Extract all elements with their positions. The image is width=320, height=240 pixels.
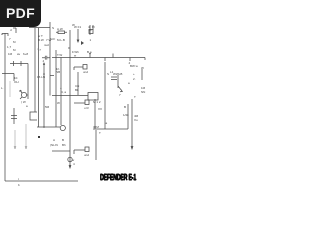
svg-text:4: 4 xyxy=(73,162,75,166)
svg-text:⌜.7: ⌜.7 xyxy=(37,48,41,52)
svg-text:w T: w T xyxy=(38,34,43,38)
tap x113 up xyxy=(112,54,114,58)
svg-text:B.a: B.a xyxy=(87,50,92,54)
node dot x44 xyxy=(43,73,45,75)
wire stub top-left xyxy=(13,28,16,33)
node square xyxy=(38,136,40,138)
wire vertical x142 xyxy=(141,69,143,80)
rail end tick xyxy=(144,58,146,61)
wire left border bus xyxy=(4,33,6,181)
wire y151 xyxy=(52,150,70,152)
svg-text:2·: 2· xyxy=(133,77,136,81)
capacitor C5 xyxy=(111,77,117,80)
wire vertical x28 xyxy=(27,64,29,100)
fuse F2 circle xyxy=(68,157,72,161)
svg-text:1,7: 1,7 xyxy=(7,45,12,49)
svg-text:S: S xyxy=(52,26,54,30)
capacitor C2 xyxy=(42,56,50,60)
svg-text:A.W: A.W xyxy=(57,27,63,31)
svg-text:nuŏ: nuŏ xyxy=(44,43,49,47)
wire vertical x61 xyxy=(60,58,62,126)
wire drop arrow 2 xyxy=(25,124,27,149)
resistor R10 leads xyxy=(56,31,67,33)
tick near x70 xyxy=(68,47,70,49)
jack J3 xyxy=(74,150,85,154)
tap x130 down xyxy=(129,58,131,62)
jack J1 xyxy=(74,67,83,70)
svg-text:XX: XX xyxy=(98,107,102,111)
svg-text:OH: OH xyxy=(14,80,19,84)
svg-text:M: M xyxy=(13,48,16,52)
svg-text:32M: 32M xyxy=(93,125,99,129)
svg-text:M 1 2: M 1 2 xyxy=(93,100,101,104)
wire vertical x78 upper xyxy=(77,29,79,42)
svg-text:a: a xyxy=(106,121,108,125)
transistor Q1 xyxy=(21,92,26,97)
wire vertical x128 xyxy=(127,104,129,129)
jack J3 tip xyxy=(85,147,89,152)
svg-text:Bh: Bh xyxy=(62,143,66,147)
wire vertical x105 xyxy=(104,62,106,129)
svg-text:W: W xyxy=(141,66,144,70)
wire rail y129 xyxy=(93,128,128,130)
node dot rail xyxy=(43,126,45,128)
svg-text:+: + xyxy=(133,72,135,76)
svg-text:B.W: B.W xyxy=(38,38,44,42)
tap x90 xyxy=(89,53,91,58)
svg-text:b: b xyxy=(18,183,20,187)
wire drop arrow 1 xyxy=(14,130,16,149)
wire vertical x95 xyxy=(94,99,96,129)
svg-text:S: S xyxy=(107,72,109,76)
svg-text:a: a xyxy=(26,104,28,108)
svg-text:7: 7 xyxy=(119,93,121,97)
wire rail y127 xyxy=(37,126,60,128)
svg-text:NB: NB xyxy=(56,70,60,74)
wire vertical x78 lower xyxy=(77,72,79,95)
svg-text:w: w xyxy=(74,54,77,58)
svg-text:BW w: BW w xyxy=(130,64,139,68)
svg-text:T: T xyxy=(99,131,101,135)
wire supply rail y57 xyxy=(52,57,145,59)
wire vertical x38 xyxy=(38,28,40,127)
svg-text:4, a: 4, a xyxy=(61,90,66,94)
arrowhead x44 top xyxy=(43,63,45,65)
svg-text:und: und xyxy=(84,153,89,157)
wire vertical x44 xyxy=(43,63,45,127)
svg-text:1M: 1M xyxy=(8,52,13,56)
svg-text:7: 7 xyxy=(9,37,11,41)
svg-text:B: B xyxy=(62,138,64,142)
PDF badge xyxy=(0,0,41,27)
resistor R10 xyxy=(58,31,65,34)
wire vertical x70 xyxy=(69,30,71,168)
jack J2 xyxy=(74,102,85,104)
wire vertical x56 xyxy=(55,50,57,127)
stamp DEFENDER xyxy=(100,172,125,181)
wire top rail xyxy=(29,27,50,29)
node dot tap xyxy=(89,53,91,55)
svg-text:4: 4 xyxy=(43,59,45,63)
component box x90 xyxy=(89,30,93,34)
svg-text:15.LN: 15.LN xyxy=(37,75,45,79)
wire bracket xyxy=(30,112,37,120)
jack J2 tip xyxy=(85,100,89,105)
svg-text:w.: w. xyxy=(1,32,4,36)
svg-text:M: M xyxy=(92,25,95,29)
svg-text:F.Wh: F.Wh xyxy=(72,50,79,54)
svg-text:A: A xyxy=(53,138,55,142)
wire rail y95 xyxy=(52,95,88,97)
diode D1 xyxy=(81,41,84,45)
wire vertical x35 xyxy=(34,28,36,112)
svg-text:W F1: W F1 xyxy=(74,25,81,29)
svg-text:L.: L. xyxy=(1,86,4,90)
svg-text:BL: BL xyxy=(75,88,79,92)
transformer T1 xyxy=(88,93,98,101)
svg-text:Xu: Xu xyxy=(134,118,138,122)
wire vertical x96 low xyxy=(95,130,97,160)
dash marks xyxy=(50,75,54,77)
svg-text:und: und xyxy=(83,70,88,74)
svg-text:M.L.B: M.L.B xyxy=(57,38,65,42)
wire vertical x90 xyxy=(89,25,92,35)
wire vertical x132 xyxy=(131,99,133,149)
svg-text:B: B xyxy=(124,105,126,109)
wire bottom ground rail xyxy=(5,180,78,182)
svg-text:6+8: 6+8 xyxy=(23,52,28,56)
svg-text:t: t xyxy=(18,177,19,181)
jack J1 tip xyxy=(83,65,87,70)
svg-text:T: T xyxy=(134,95,136,99)
svg-text:W: W xyxy=(57,101,60,105)
svg-text:1: 1 xyxy=(90,38,92,42)
svg-text:u R: u R xyxy=(84,106,90,110)
wire y73 xyxy=(2,74,14,82)
wire vertical x93 xyxy=(92,25,94,30)
svg-text:a: a xyxy=(128,81,130,85)
wire input stub xyxy=(2,34,8,37)
svg-text:NN: NN xyxy=(141,90,145,94)
svg-text:T.W: T.W xyxy=(57,53,62,57)
speaker SP1 xyxy=(60,125,65,130)
capacitor C1 series chain xyxy=(10,61,28,66)
wire faint x10 xyxy=(9,81,11,97)
svg-text:(NL/N: (NL/N xyxy=(50,143,58,147)
svg-text:W: W xyxy=(19,89,22,93)
transistor Q1 leads xyxy=(20,90,28,99)
transistor Q2 xyxy=(118,75,122,92)
svg-text:1/2k: 1/2k xyxy=(123,113,129,117)
tap x105 down xyxy=(104,58,106,62)
potentiometer VR1 xyxy=(11,108,17,124)
svg-text:av: av xyxy=(17,52,21,56)
svg-text:M.F: M.F xyxy=(50,37,55,41)
wire vertical x50 xyxy=(49,22,51,96)
svg-text:W: W xyxy=(72,23,75,27)
svg-text:M: M xyxy=(13,40,16,44)
svg-text:d: d xyxy=(10,28,12,32)
svg-text:5M: 5M xyxy=(45,105,50,109)
